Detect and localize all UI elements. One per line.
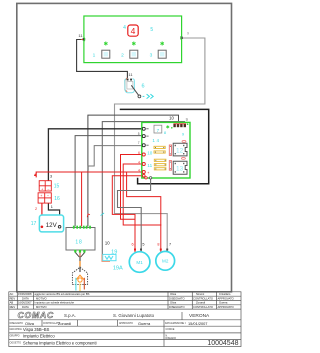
svg-text:COMAC: COMAC — [18, 310, 54, 320]
svg-text:DATA: DATA — [22, 296, 29, 300]
svg-text:19A: 19A — [113, 265, 123, 271]
svg-text:7: 7 — [157, 128, 160, 133]
svg-text:6: 6 — [132, 243, 134, 247]
svg-text:15/06/2008: 15/06/2008 — [18, 292, 32, 296]
svg-text:Simoni: Simoni — [196, 292, 205, 296]
svg-text:4: 4 — [123, 25, 126, 31]
svg-text:DATA: DATA — [22, 305, 29, 309]
svg-text:7: 7 — [138, 141, 140, 145]
svg-text:CODICE: CODICE — [166, 329, 175, 331]
svg-text:10: 10 — [169, 115, 174, 120]
svg-text:DATA EMISSIONE =: DATA EMISSIONE = — [165, 322, 187, 325]
svg-text:15/01/2007: 15/01/2007 — [188, 321, 207, 326]
svg-text:GRUPPO: GRUPPO — [10, 336, 20, 338]
svg-text:MOTIVO: MOTIVO — [36, 296, 47, 300]
svg-text:Zonardi: Zonardi — [58, 321, 71, 326]
svg-text:Guerra: Guerra — [219, 301, 228, 305]
svg-text:VERONA: VERONA — [189, 313, 210, 319]
svg-text:2: 2 — [35, 207, 37, 211]
svg-text:CONTROLLATO: CONTROLLATO — [193, 296, 213, 300]
svg-text:MOTIVO: MOTIVO — [36, 305, 47, 309]
svg-text:REV: REV — [10, 296, 16, 300]
svg-text:2: 2 — [121, 53, 124, 59]
svg-text:✱: ✱ — [103, 41, 108, 48]
svg-text:5: 5 — [138, 132, 140, 136]
svg-text:11: 11 — [147, 163, 152, 168]
svg-text:AB: AB — [10, 301, 14, 305]
svg-text:aggiunto versione BS ed el: aggiunto versione BS ed elettroavviato p… — [35, 292, 90, 296]
svg-text:S.p.A.: S.p.A. — [64, 313, 76, 318]
svg-text:APPROVATO: APPROVATO — [119, 322, 133, 325]
svg-text:19: 19 — [111, 249, 117, 255]
svg-text:✱: ✱ — [166, 125, 170, 130]
svg-text:Oliva: Oliva — [170, 292, 177, 296]
svg-text:M2: M2 — [162, 259, 169, 264]
svg-text:Vispa 35B–BS: Vispa 35B–BS — [23, 327, 50, 332]
svg-text:MACCHINA: MACCHINA — [10, 328, 23, 331]
svg-text:Zonardi: Zonardi — [196, 301, 206, 305]
svg-text:Oliva: Oliva — [170, 301, 177, 305]
svg-text:13: 13 — [176, 166, 184, 173]
svg-text:Guerra: Guerra — [138, 321, 151, 326]
svg-text:REV: REV — [10, 305, 16, 309]
svg-text:3: 3 — [150, 53, 153, 59]
svg-text:4: 4 — [138, 168, 140, 172]
svg-text:10004548: 10004548 — [207, 340, 238, 347]
svg-text:17: 17 — [31, 221, 37, 227]
svg-text:DISEGNO: DISEGNO — [166, 338, 177, 340]
svg-text:1: 1 — [51, 205, 53, 209]
svg-text:Impianto con schede elettro: Impianto con schede elettroniche — [35, 301, 75, 305]
svg-text:DISEGNATO: DISEGNATO — [10, 322, 24, 325]
svg-text:6: 6 — [138, 151, 140, 155]
svg-text:15: 15 — [54, 184, 60, 190]
svg-text:4: 4 — [131, 26, 136, 36]
svg-text:Crivellaro: Crivellaro — [219, 292, 231, 296]
svg-text:16/06/2007: 16/06/2007 — [18, 301, 32, 305]
svg-text:S. Giovanni Lupatoto: S. Giovanni Lupatoto — [113, 313, 155, 318]
svg-text:9: 9 — [187, 32, 189, 36]
svg-text:✱: ✱ — [160, 41, 165, 48]
svg-text:APPROVATO: APPROVATO — [218, 305, 234, 309]
svg-text:AC: AC — [10, 292, 14, 296]
svg-text:14: 14 — [152, 138, 160, 143]
svg-text:✱: ✱ — [131, 41, 136, 48]
svg-text:10: 10 — [147, 150, 153, 155]
svg-text:5: 5 — [142, 243, 144, 247]
svg-text:12: 12 — [176, 147, 184, 154]
svg-text:M1: M1 — [136, 260, 143, 265]
svg-text:DISEGNATO: DISEGNATO — [169, 305, 185, 309]
svg-text:1: 1 — [93, 53, 96, 59]
svg-text:12V: 12V — [46, 222, 58, 229]
svg-text:6: 6 — [141, 84, 144, 90]
svg-text:3: 3 — [50, 174, 52, 178]
svg-text:18: 18 — [75, 240, 82, 246]
svg-text:5: 5 — [150, 27, 153, 33]
svg-text:DISEGNATO: DISEGNATO — [169, 296, 185, 300]
svg-text:Schema Impianto Elettrico e: Schema Impianto Elettrico e componenti — [23, 340, 97, 345]
svg-text:10: 10 — [105, 240, 110, 245]
svg-text:APPROVATO: APPROVATO — [218, 296, 234, 300]
svg-text:8: 8 — [157, 243, 159, 247]
svg-text:Oliva: Oliva — [25, 321, 35, 326]
svg-text:OGGETTO: OGGETTO — [10, 342, 22, 344]
svg-text:7: 7 — [169, 243, 171, 247]
svg-text:4: 4 — [138, 160, 140, 164]
svg-text:Impianto Elettrico: Impianto Elettrico — [23, 334, 55, 339]
svg-text:16: 16 — [54, 196, 60, 202]
svg-text:CONTROLLATO: CONTROLLATO — [193, 305, 213, 309]
